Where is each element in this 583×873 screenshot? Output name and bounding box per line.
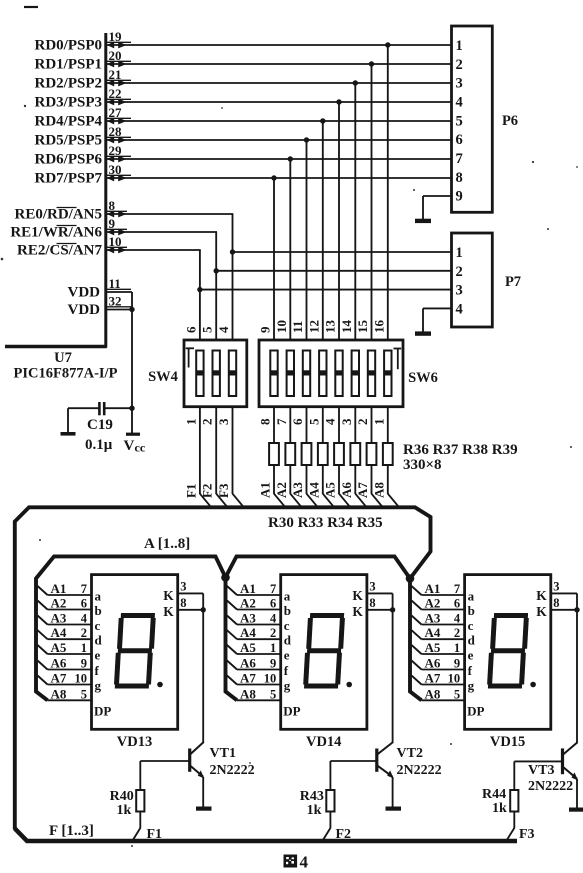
DIP switch SW6 element 2 — [287, 351, 294, 397]
svg-text:RD6/PSP6: RD6/PSP6 — [35, 152, 103, 168]
svg-text:1: 1 — [456, 38, 463, 54]
caption figure 4 — [284, 853, 309, 872]
svg-text:A [1..8]: A [1..8] — [144, 536, 190, 552]
svg-text:A7: A7 — [425, 671, 441, 686]
wire RD7 to SW6 column, junction — [271, 175, 276, 341]
connector P6 — [452, 26, 493, 212]
svg-text:4: 4 — [456, 95, 463, 111]
wire RD2/PSP2 pin 21 to P6 pin 3 — [35, 67, 453, 92]
svg-text:R36 R37 R38 R39: R36 R37 R38 R39 — [403, 442, 518, 458]
svg-text:DP: DP — [467, 704, 484, 719]
wire VD13 input A3 pin 4 — [38, 611, 93, 626]
svg-text:9: 9 — [109, 216, 116, 231]
svg-text:P6: P6 — [502, 113, 518, 129]
svg-text:7: 7 — [81, 582, 87, 596]
resistor R31 330 ohm — [285, 443, 300, 506]
wire to P7 pin 2 — [216, 270, 452, 272]
DIP switch SW6 element 4 — [319, 351, 326, 397]
SW6 bottom pin 4 wire — [323, 407, 340, 443]
svg-text:10: 10 — [448, 672, 461, 686]
VD13 cathode labels K — [163, 588, 174, 619]
svg-text:RD3/PSP3: RD3/PSP3 — [35, 95, 103, 111]
bus A drop for VD15 — [410, 579, 422, 701]
svg-text:F3: F3 — [216, 483, 231, 498]
DIP switch SW6 element 3 — [303, 351, 310, 397]
wire RD0 to SW6 column, junction — [385, 42, 390, 341]
svg-text:9: 9 — [258, 326, 273, 333]
svg-text:RD2/PSP2: RD2/PSP2 — [35, 76, 103, 92]
svg-text:VD14: VD14 — [306, 734, 341, 750]
svg-text:20: 20 — [109, 48, 122, 63]
wire VD15 input A3 pin 4 — [412, 611, 466, 626]
wire to P7 pin 1 — [233, 251, 453, 253]
svg-text:4: 4 — [270, 612, 277, 626]
wire VD14 cathode pin 8 — [367, 596, 395, 613]
svg-text:29: 29 — [109, 143, 123, 158]
svg-text:2N2222: 2N2222 — [528, 779, 573, 794]
svg-text:P7: P7 — [505, 274, 521, 290]
SW4 bottom pin 1 wire — [183, 407, 210, 507]
wire VD13 input A6 pin 9 — [38, 656, 93, 671]
transistor VT3 labels — [528, 763, 573, 794]
svg-text:RD4/PSP4: RD4/PSP4 — [35, 114, 103, 130]
resistor R44 1k — [507, 761, 519, 840]
svg-text:A7: A7 — [51, 671, 67, 686]
ground for P7 pin 4 — [415, 331, 431, 335]
resistor R44 labels — [482, 787, 507, 816]
svg-text:DP: DP — [94, 704, 111, 719]
svg-text:1: 1 — [270, 641, 276, 655]
svg-text:A3: A3 — [290, 482, 305, 498]
svg-text:A7: A7 — [355, 482, 370, 498]
svg-text:A6: A6 — [425, 656, 441, 671]
SW6 bottom pin 7 wire — [274, 407, 291, 443]
svg-text:e: e — [468, 648, 474, 663]
svg-text:d: d — [468, 633, 476, 648]
svg-text:1: 1 — [183, 419, 198, 426]
svg-text:VT3: VT3 — [528, 763, 554, 778]
svg-text:8: 8 — [258, 418, 273, 425]
wire P6 pin 9 to ground — [423, 196, 453, 220]
wire VD14 input A3 pin 4 — [227, 611, 282, 626]
wire RD4/PSP4 pin 27 to P6 pin 5 — [35, 105, 453, 130]
svg-text:14: 14 — [339, 320, 354, 334]
wire VD13 input A7 pin 10 — [38, 671, 93, 686]
svg-text:9: 9 — [270, 657, 276, 671]
svg-text:SW6: SW6 — [408, 370, 438, 386]
svg-text:RE0/RD/AN5: RE0/RD/AN5 — [14, 207, 102, 223]
svg-text:PIC16F877A-I/P: PIC16F877A-I/P — [14, 366, 118, 382]
svg-text:10: 10 — [75, 672, 88, 686]
svg-text:2: 2 — [454, 626, 460, 640]
svg-text:5: 5 — [270, 687, 276, 701]
wire VD15 input A8 pin 5 — [412, 686, 466, 701]
wire RD1/PSP1 pin 20 to P6 pin 2 — [35, 48, 453, 73]
svg-text:A7: A7 — [240, 671, 256, 686]
svg-text:A2: A2 — [240, 596, 256, 611]
DIP switch SW4 element 2 — [213, 351, 220, 397]
DIP switch SW6 body — [259, 340, 403, 407]
VD14 cathode labels K — [352, 588, 363, 619]
svg-text:A6: A6 — [339, 482, 354, 498]
svg-text:A5: A5 — [51, 640, 67, 655]
svg-text:A1: A1 — [258, 482, 273, 498]
wire VD13 input A2 pin 6 — [38, 596, 93, 611]
svg-text:RE1/WR/AN6: RE1/WR/AN6 — [10, 225, 102, 241]
capacitor C19 — [68, 402, 135, 415]
VD13 seven segment digit — [115, 616, 155, 687]
svg-text:R30 R33 R34 R35: R30 R33 R34 R35 — [268, 515, 383, 531]
SW6 bottom pin 3 wire — [339, 407, 356, 443]
svg-text:A5: A5 — [425, 640, 441, 655]
VD15 decimal point — [530, 682, 536, 688]
resistor R40 1k — [133, 761, 145, 841]
svg-text:9: 9 — [456, 189, 463, 205]
svg-text:A3: A3 — [51, 611, 67, 626]
svg-text:6: 6 — [456, 132, 463, 148]
svg-text:RE2/CS/AN7: RE2/CS/AN7 — [17, 243, 103, 259]
ground for C19 — [61, 408, 76, 434]
wire P7 pin 4 to ground — [423, 308, 453, 332]
svg-text:e: e — [284, 648, 290, 663]
resistor R43 labels — [300, 789, 324, 818]
svg-text:e: e — [95, 648, 101, 663]
svg-text:8: 8 — [369, 596, 375, 610]
transistor VT1 2N2222 — [140, 610, 204, 807]
DIP switch SW6 element 6 — [352, 351, 359, 397]
wire RD7/PSP7 pin 30 to P6 pin 8 — [35, 162, 453, 187]
svg-text:U7: U7 — [54, 350, 72, 366]
ground for P6 pin 9 — [415, 219, 431, 223]
svg-text:A1: A1 — [425, 581, 441, 596]
svg-text:c: c — [284, 618, 290, 633]
svg-text:5: 5 — [306, 418, 321, 425]
svg-text:cc: cc — [135, 441, 146, 455]
svg-text:10: 10 — [109, 234, 122, 249]
svg-text:30: 30 — [109, 162, 122, 177]
DIP switch SW4 element 3 — [229, 351, 236, 397]
VD15 seven segment digit — [488, 616, 528, 687]
svg-text:K: K — [352, 604, 363, 619]
svg-text:F1: F1 — [183, 484, 198, 498]
svg-text:RD5/PSP5: RD5/PSP5 — [35, 133, 103, 149]
display VD13 body — [92, 575, 178, 730]
svg-text:330×8: 330×8 — [403, 457, 442, 473]
svg-text:3: 3 — [456, 283, 463, 299]
svg-text:0.1μ: 0.1μ — [85, 437, 113, 453]
svg-text:C19: C19 — [87, 417, 113, 433]
svg-text:8: 8 — [180, 596, 186, 610]
svg-text:VDD: VDD — [68, 302, 101, 318]
svg-text:V: V — [124, 438, 135, 454]
wire VD13 input A8 pin 5 — [38, 686, 93, 701]
svg-text:VD13: VD13 — [117, 734, 152, 750]
svg-text:11: 11 — [109, 276, 121, 291]
svg-text:3: 3 — [553, 580, 559, 594]
power terminal Vcc — [124, 434, 146, 454]
svg-text:A8: A8 — [371, 482, 386, 498]
svg-text:1k: 1k — [307, 803, 322, 818]
svg-text:13: 13 — [323, 320, 338, 334]
svg-text:2: 2 — [200, 419, 215, 426]
svg-text:3: 3 — [339, 418, 354, 425]
svg-text:5: 5 — [456, 113, 463, 129]
resistor R43 1k — [323, 761, 335, 841]
wire VD15 input A1 pin 7 — [412, 581, 466, 596]
svg-text:a: a — [284, 589, 291, 604]
resistor R36 330 ohm — [367, 443, 382, 506]
svg-text:c: c — [468, 618, 474, 633]
svg-text:RD7/PSP7: RD7/PSP7 — [35, 171, 103, 187]
svg-text:g: g — [95, 678, 102, 693]
svg-text:R44: R44 — [482, 787, 506, 802]
DIP switch SW4 ON marker — [186, 348, 194, 368]
svg-text:VD15: VD15 — [490, 734, 525, 750]
svg-text:K: K — [536, 588, 547, 603]
resistor R40 labels — [110, 789, 134, 818]
DIP switch SW6 ON marker — [394, 348, 402, 369]
svg-text:A1: A1 — [51, 581, 67, 596]
wire RD6/PSP6 pin 29 to P6 pin 7 — [35, 143, 453, 168]
svg-text:f: f — [95, 663, 100, 678]
DIP switch SW6 element 5 — [335, 351, 342, 397]
svg-text:g: g — [284, 678, 291, 693]
svg-text:6: 6 — [81, 597, 87, 611]
svg-text:A2: A2 — [51, 596, 67, 611]
bus A horizontal run between displays — [36, 556, 410, 700]
svg-text:8: 8 — [456, 170, 463, 186]
svg-text:DP: DP — [283, 704, 300, 719]
svg-text:5: 5 — [200, 326, 215, 333]
bus F and A main run — [15, 507, 431, 829]
svg-text:A6: A6 — [240, 656, 256, 671]
svg-text:a: a — [95, 589, 102, 604]
wire RE0/RD/AN5 pin 8 to SW4 — [14, 198, 235, 341]
svg-text:4: 4 — [81, 612, 88, 626]
svg-text:3: 3 — [369, 580, 375, 594]
svg-text:RD1/PSP1: RD1/PSP1 — [35, 57, 103, 73]
wire VD13 input A1 pin 7 — [38, 581, 93, 596]
transistor VT3 2N2222 — [514, 610, 578, 808]
svg-text:A3: A3 — [240, 611, 256, 626]
svg-text:3: 3 — [456, 76, 463, 92]
SW4 bottom pin 3 wire — [216, 407, 243, 507]
wire RD0/PSP0 pin 19 to P6 pin 1 — [35, 29, 453, 54]
VD15 cathode labels K — [536, 588, 547, 619]
svg-text:VDD: VDD — [68, 285, 101, 301]
VD14 seven segment digit — [304, 616, 344, 687]
bus A drop for VD14 — [226, 577, 238, 700]
wire VD13 input A5 pin 1 — [38, 640, 93, 655]
svg-text:1: 1 — [371, 419, 386, 426]
transistor VT2 labels — [397, 746, 442, 778]
svg-text:b: b — [95, 603, 102, 618]
svg-text:RD0/PSP0: RD0/PSP0 — [35, 38, 103, 54]
resistor R32 330 ohm — [302, 443, 317, 506]
VD14 decimal point — [346, 682, 352, 688]
svg-text:A8: A8 — [240, 686, 256, 701]
svg-text:d: d — [284, 633, 292, 648]
svg-text:5: 5 — [81, 687, 87, 701]
svg-text:9: 9 — [454, 657, 460, 671]
svg-text:R40: R40 — [110, 789, 134, 804]
svg-text:3: 3 — [180, 580, 186, 594]
wire VD15 input A5 pin 1 — [412, 640, 466, 655]
ground for VT3 emitter — [569, 807, 583, 811]
resistor R35 330 ohm — [350, 443, 365, 506]
svg-text:b: b — [284, 603, 291, 618]
DIP switch SW4 element 1 — [196, 351, 203, 397]
capacitor C19 value labels — [85, 417, 113, 453]
svg-text:F2: F2 — [200, 484, 215, 498]
svg-text:K: K — [536, 604, 547, 619]
wire VD15 input A6 pin 9 — [412, 656, 466, 671]
svg-text:VT2: VT2 — [397, 746, 423, 761]
svg-text:VT1: VT1 — [210, 746, 236, 761]
VD13 decimal point — [157, 682, 163, 688]
svg-text:K: K — [352, 588, 363, 603]
wire VDD pin 11 — [68, 276, 133, 301]
svg-text:1k: 1k — [492, 801, 507, 816]
svg-text:27: 27 — [109, 105, 123, 120]
SW6 bottom pin 8 wire — [258, 407, 275, 443]
svg-text:1: 1 — [454, 641, 460, 655]
wire VD15 input A7 pin 10 — [412, 671, 466, 686]
svg-text:16: 16 — [371, 320, 386, 334]
svg-text:2: 2 — [355, 419, 370, 426]
svg-text:g: g — [468, 678, 475, 693]
svg-text:10: 10 — [274, 320, 289, 333]
svg-text:A4: A4 — [51, 625, 67, 640]
svg-text:28: 28 — [109, 124, 123, 139]
svg-text:1: 1 — [81, 641, 87, 655]
svg-text:9: 9 — [81, 657, 87, 671]
svg-text:A1: A1 — [240, 581, 256, 596]
svg-text:2: 2 — [456, 57, 463, 73]
svg-text:7: 7 — [274, 418, 289, 425]
svg-text:6: 6 — [183, 326, 198, 333]
wire VD13 cathode pin 8 — [178, 596, 206, 613]
svg-text:7: 7 — [270, 582, 276, 596]
wire VD14 input A4 pin 2 — [227, 625, 282, 640]
svg-text:10: 10 — [264, 672, 277, 686]
wire VD13 input A4 pin 2 — [38, 625, 93, 640]
svg-text:2: 2 — [456, 264, 463, 280]
svg-text:K: K — [163, 588, 174, 603]
SW6 bottom pin 2 wire — [355, 407, 372, 443]
DIP switch SW6 element 8 — [384, 351, 391, 397]
wire VD14 input A5 pin 1 — [227, 640, 282, 655]
svg-text:A4: A4 — [240, 625, 256, 640]
svg-text:d: d — [95, 633, 103, 648]
resistor R37 330 ohm — [383, 443, 398, 506]
svg-text:K: K — [163, 604, 174, 619]
svg-text:F3: F3 — [519, 827, 535, 842]
wire VDD rail down to C19/Vcc — [131, 292, 133, 433]
svg-text:6: 6 — [290, 418, 305, 425]
svg-text:4: 4 — [216, 326, 231, 333]
wire RE2/CS/AN7 pin 10 to SW4 — [17, 234, 203, 341]
wire VD14 input A6 pin 9 — [227, 656, 282, 671]
svg-text:F2: F2 — [336, 827, 352, 842]
wire VD14 input A1 pin 7 — [227, 581, 282, 596]
svg-text:1: 1 — [456, 245, 463, 261]
svg-text:A2: A2 — [274, 482, 289, 498]
svg-text:A6: A6 — [51, 656, 67, 671]
svg-text:4: 4 — [456, 301, 463, 317]
wire — [24, 6, 38, 8]
svg-text:6: 6 — [454, 597, 460, 611]
wire to P7 pin 3 — [200, 289, 453, 291]
svg-text:A8: A8 — [51, 686, 67, 701]
display VD15 body — [465, 575, 551, 730]
wire RD4 to SW6 column, junction — [320, 118, 325, 341]
wire VD15 cathode pin 3 — [551, 580, 577, 610]
svg-text:12: 12 — [306, 320, 321, 333]
svg-text:4: 4 — [454, 612, 461, 626]
svg-text:2: 2 — [81, 626, 87, 640]
svg-text:c: c — [95, 618, 101, 633]
svg-text:15: 15 — [355, 320, 370, 334]
transistor VT2 2N2222 — [330, 610, 393, 807]
svg-text:7: 7 — [456, 151, 463, 167]
SW6 bottom pin 6 wire — [290, 407, 307, 443]
svg-text:3: 3 — [216, 418, 231, 425]
wire RD2 to SW6 column, junction — [353, 80, 358, 341]
DIP switch SW4 body — [184, 340, 247, 407]
svg-text:11: 11 — [290, 321, 305, 333]
wire VD14 input A8 pin 5 — [227, 686, 282, 701]
wire VD15 input A2 pin 6 — [412, 596, 466, 611]
wire VDD pin 32 — [68, 293, 135, 318]
svg-text:A4: A4 — [425, 625, 441, 640]
ground for VT1 emitter — [196, 806, 212, 810]
transistor VT1 labels — [210, 746, 255, 778]
svg-text:R43: R43 — [300, 789, 324, 804]
resistor R33 330 ohm — [318, 443, 333, 506]
IC U7 PIC16F877A-I/P outline — [5, 33, 107, 348]
resistor R30 330 ohm — [269, 443, 284, 506]
svg-text:b: b — [468, 603, 475, 618]
svg-text:A3: A3 — [425, 611, 441, 626]
svg-text:1k: 1k — [117, 803, 132, 818]
svg-text:32: 32 — [109, 293, 122, 308]
svg-text:A5: A5 — [240, 640, 256, 655]
wire VD14 input A2 pin 6 — [227, 596, 282, 611]
svg-text:SW4: SW4 — [148, 369, 178, 385]
svg-text:8: 8 — [109, 198, 116, 213]
resistor network labels R36 R37 R38 R39 — [403, 442, 518, 473]
svg-text:21: 21 — [109, 67, 122, 82]
svg-text:f: f — [468, 663, 473, 678]
svg-text:19: 19 — [109, 29, 123, 44]
SW6 bottom pin 5 wire — [306, 407, 323, 443]
svg-text:F [1..3]: F [1..3] — [49, 823, 94, 839]
svg-text:22: 22 — [109, 86, 122, 101]
display VD14 body — [281, 575, 367, 730]
SW4 bottom pin 2 wire — [200, 407, 227, 507]
resistor R34 330 ohm — [334, 443, 349, 506]
svg-text:4: 4 — [323, 418, 338, 425]
wire RD3/PSP3 pin 22 to P6 pin 4 — [35, 86, 453, 111]
svg-text:a: a — [468, 589, 475, 604]
svg-text:6: 6 — [270, 597, 276, 611]
bus junction dot VD15 — [406, 574, 415, 583]
wire VD14 input A7 pin 10 — [227, 671, 282, 686]
DIP switch SW6 element 7 — [368, 351, 375, 397]
wire RE1/WR/AN6 pin 9 to SW4 — [10, 216, 219, 341]
svg-text:A8: A8 — [425, 686, 441, 701]
